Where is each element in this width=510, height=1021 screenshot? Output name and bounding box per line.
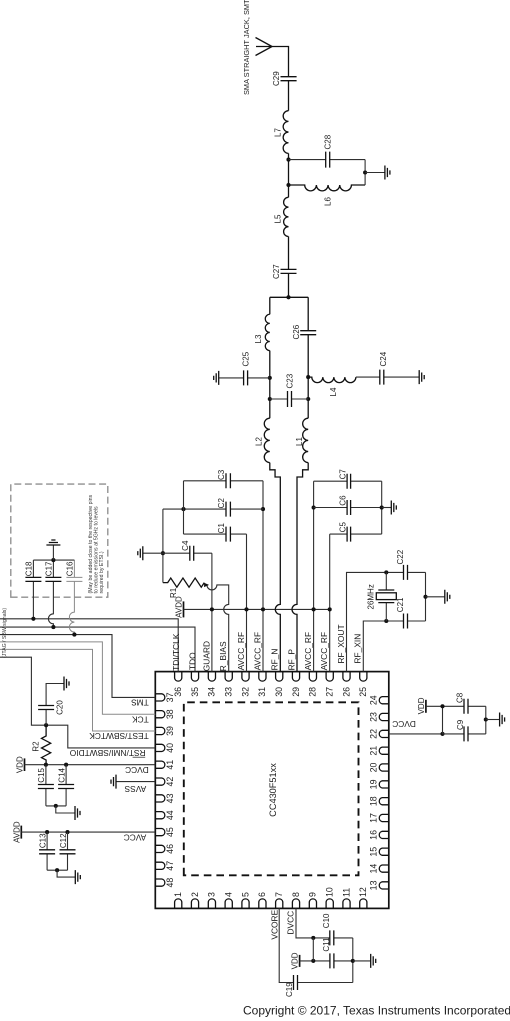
wire RF_XOUT net (pin 26) — [347, 572, 426, 671]
svg-text:33: 33 — [224, 687, 234, 697]
svg-text:26: 26 — [341, 687, 351, 697]
junction C4 node — [161, 551, 165, 555]
svg-text:TDI/TCLK: TDI/TCLK — [171, 633, 181, 671]
svg-text:C22: C22 — [396, 549, 405, 564]
svg-text:L2: L2 — [255, 437, 264, 446]
svg-text:VDD: VDD — [291, 952, 300, 969]
wire RF_XIN net (pin 25) — [363, 621, 425, 672]
svg-text:34: 34 — [207, 687, 217, 697]
inductor L2 — [264, 418, 270, 462]
svg-text:DVCC: DVCC — [285, 911, 295, 935]
svg-text:24: 24 — [369, 695, 379, 705]
inductor L3 — [265, 314, 270, 350]
ground AVSS pin 42 — [116, 781, 155, 783]
wire RF_N net (pin 30, hops rail, jog up to balun) — [270, 463, 281, 672]
svg-text:44: 44 — [165, 810, 175, 820]
junction C2/top bar — [181, 507, 185, 511]
inductor L4 — [308, 377, 356, 383]
capacitor C16 on TMS line (hops TDO and TDI) — [69, 560, 74, 635]
wire TDO net (pin 35 to top edge) — [0, 627, 195, 672]
svg-text:C18: C18 — [24, 561, 33, 576]
junction pin31/C2 — [261, 507, 265, 511]
capacitor C12 — [67, 832, 69, 870]
inductor L7 — [283, 111, 288, 154]
capacitor C17 on TDO line (hops TDI) — [48, 560, 53, 627]
svg-text:13: 13 — [369, 880, 379, 890]
junction C23 bottom — [306, 397, 310, 401]
pin stubs bottom edge: pins 13..24 — [379, 697, 389, 889]
junction VDD/link — [440, 704, 444, 708]
svg-text:C10: C10 — [322, 913, 331, 928]
junction bottom bar/ground — [351, 959, 355, 963]
capacitor C15 — [45, 765, 47, 806]
wire main RF rail — [288, 237, 290, 298]
capacitor C25 — [219, 377, 270, 379]
svg-text:3: 3 — [207, 892, 217, 897]
svg-text:17: 17 — [369, 813, 379, 823]
capacitor C23 — [270, 398, 308, 400]
wire C21/C22 bottom bar — [425, 572, 427, 621]
capacitor C14 — [65, 765, 67, 806]
svg-text:19: 19 — [369, 779, 379, 789]
svg-text:8: 8 — [291, 892, 301, 897]
svg-text:18: 18 — [369, 796, 379, 806]
capacitor C21 — [404, 614, 408, 629]
svg-text:C17: C17 — [44, 561, 53, 576]
wire VDD to C11 — [300, 960, 353, 962]
wire RF_P rail to C26 — [307, 297, 309, 418]
svg-text:R1: R1 — [169, 587, 178, 598]
junction bottom bar ground — [363, 170, 367, 174]
svg-text:27: 27 — [325, 687, 335, 697]
svg-text:C1: C1 — [217, 523, 226, 534]
capacitor C13 — [46, 832, 48, 870]
svg-text:32: 32 — [240, 687, 250, 697]
capacitor C3 — [184, 480, 264, 482]
junction pin32/rail — [244, 607, 248, 611]
junction C12-C13 ground tap — [55, 868, 59, 872]
junction pin28/rail — [312, 607, 316, 611]
junction L4 — [306, 375, 310, 379]
wire AVCC_RF pin 31 net — [262, 481, 264, 672]
junction pin27/rail — [328, 607, 332, 611]
svg-text:AVCC_RF: AVCC_RF — [303, 632, 313, 670]
svg-text:GUARD: GUARD — [201, 641, 211, 671]
svg-text:L6: L6 — [323, 197, 332, 206]
svg-text:7: 7 — [274, 892, 284, 897]
wire TMS net (pin 37 to top edge) — [0, 635, 155, 698]
inductor L1 — [303, 418, 309, 462]
svg-text:42: 42 — [165, 777, 175, 787]
pin stubs right edge: pins 36..25 — [175, 672, 367, 682]
ground for C5-C7 — [382, 507, 392, 509]
svg-text:11: 11 — [341, 888, 351, 897]
junction bar/C27 — [286, 295, 290, 299]
junction VDD/C14 — [64, 763, 68, 767]
capacitor C22 — [404, 565, 408, 580]
junction C25 — [268, 376, 272, 380]
dashed option box around C16 C17 C18 — [11, 484, 108, 597]
arrow R1 to R_BIAS — [204, 583, 209, 587]
junction C16/TMS — [72, 633, 76, 637]
wire DVCC net (pin 8) — [296, 908, 353, 938]
wire AVDD RF rail vertical — [184, 608, 330, 610]
svg-text:41: 41 — [165, 760, 175, 770]
wire AVCC_RF pin 27 net — [329, 534, 331, 672]
svg-text:DVCC: DVCC — [125, 765, 149, 775]
junction VDD/DVCC link — [311, 959, 315, 963]
ground for C20 — [64, 677, 69, 691]
capacitor C8 — [464, 699, 468, 714]
svg-text:RF_N: RF_N — [270, 649, 280, 671]
label RST/NMI/SBWTDIO — [69, 748, 145, 758]
svg-text:4: 4 — [224, 892, 234, 897]
svg-text:TCK: TCK — [132, 714, 149, 724]
wire RST/NMI/SBWTDIO net (pin 40 to top edge) — [0, 657, 155, 748]
wire GUARD net (pin 34) — [211, 553, 213, 671]
capacitor C7 — [314, 480, 382, 482]
capacitor C18 on TDI line — [32, 560, 34, 619]
svg-text:C23: C23 — [285, 373, 294, 388]
capacitor C11 — [330, 953, 334, 968]
supply AVDD bar (RF rail) — [183, 601, 185, 617]
svg-text:SMA STRAIGHT JACK, SMT: SMA STRAIGHT JACK, SMT — [242, 0, 251, 95]
svg-text:C14: C14 — [57, 767, 66, 782]
capacitor C29 — [281, 77, 297, 81]
wire C5-C6-C7 bottom bar — [381, 481, 383, 534]
junction C17/TDO — [51, 625, 55, 629]
svg-text:C12: C12 — [59, 833, 68, 848]
svg-text:35: 35 — [190, 687, 200, 697]
ground for C8/C9 — [486, 719, 500, 721]
svg-text:TDO: TDO — [188, 652, 198, 670]
capacitor C9 — [443, 733, 486, 735]
junction C23 top — [268, 397, 272, 401]
resistor R1 — [163, 578, 204, 587]
resistor R2 — [42, 726, 51, 765]
svg-text:40: 40 — [165, 743, 175, 753]
svg-text:C3: C3 — [217, 469, 226, 480]
svg-text:15: 15 — [369, 847, 379, 857]
svg-text:C29: C29 — [272, 71, 281, 86]
svg-text:L4: L4 — [329, 387, 338, 396]
svg-text:C25: C25 — [241, 351, 250, 366]
junction crystal/XIN — [384, 619, 388, 623]
svg-text:RF_XOUT: RF_XOUT — [336, 624, 346, 663]
svg-text:C2: C2 — [217, 498, 226, 509]
svg-text:C21: C21 — [396, 597, 405, 612]
supply VDD bar (pin 7/8 area) — [299, 955, 301, 967]
capacitor C2 — [163, 508, 263, 510]
svg-text:23: 23 — [369, 712, 379, 722]
svg-text:R_BIAS: R_BIAS — [218, 641, 228, 671]
wire RF_N rail to top bar — [269, 351, 271, 419]
wire AVCC_RF pin 32 net — [246, 534, 248, 672]
svg-text:28: 28 — [308, 687, 318, 697]
pin numbers 1..12 — [173, 887, 368, 897]
junction DVCC/VDD link — [311, 936, 315, 940]
svg-text:25: 25 — [358, 687, 368, 697]
svg-text:C20: C20 — [55, 700, 64, 715]
pin numbers 37..48 — [165, 692, 175, 887]
svg-text:14: 14 — [369, 864, 379, 874]
wire C19/C10/C11 bottom bar — [352, 938, 354, 983]
svg-text:CC430F51xx: CC430F51xx — [268, 763, 278, 817]
capacitor C26 — [300, 331, 316, 335]
svg-text:C19: C19 — [285, 982, 294, 997]
svg-text:47: 47 — [165, 861, 175, 871]
svg-text:26MHz: 26MHz — [366, 584, 375, 609]
svg-text:C8: C8 — [455, 692, 464, 703]
svg-text:TEST/SBWTCK: TEST/SBWTCK — [89, 731, 149, 741]
svg-text:L7: L7 — [273, 128, 282, 137]
wire R1 top to C4 node and C2 branch — [162, 509, 164, 582]
junction C8-C9 ground — [484, 717, 488, 721]
svg-text:21: 21 — [369, 746, 379, 756]
svg-text:9: 9 — [308, 892, 318, 897]
supply VDD bar (pin22 area) — [425, 700, 427, 713]
inductor L6 — [289, 185, 366, 191]
capacitor C20 — [46, 684, 64, 726]
svg-text:5: 5 — [240, 892, 250, 897]
svg-text:43: 43 — [165, 793, 175, 803]
svg-text:DVCC: DVCC — [392, 719, 416, 729]
capacitor C1 — [184, 533, 247, 535]
wire C28/L6 bottom bar — [364, 160, 366, 185]
junction C14-C15 ground tap — [54, 804, 58, 808]
junction pin31/rail — [261, 607, 265, 611]
junction AVDD/C13 — [45, 830, 49, 834]
wire VDD to pin 41 DVCC — [25, 764, 156, 766]
ground for crystal caps — [426, 596, 445, 598]
svg-text:22: 22 — [369, 729, 379, 739]
capacitor C19 — [294, 975, 298, 990]
svg-text:C4: C4 — [181, 540, 190, 551]
svg-text:39: 39 — [165, 726, 175, 736]
junction crystal/XOUT — [384, 570, 388, 574]
svg-text:48: 48 — [165, 878, 175, 888]
svg-text:C5: C5 — [338, 522, 347, 533]
capacitor C24 — [356, 376, 419, 378]
junction C28 branch — [286, 158, 290, 162]
wire R_BIAS net (pin 33, hops rail) — [207, 585, 229, 672]
svg-text:L5: L5 — [273, 214, 282, 223]
supply VDD bar (pin 41 DVCC rail) — [24, 758, 26, 771]
wire balun output bar — [270, 296, 308, 298]
wire C29 to antenna — [272, 47, 289, 77]
wire TDI/TCLK net (pin 36 to top edge) — [0, 619, 178, 672]
svg-text:L3: L3 — [254, 334, 263, 343]
svg-text:10: 10 — [325, 887, 335, 897]
junction R2/RST — [44, 723, 48, 727]
crystal Y1 26MHz — [385, 572, 387, 621]
wire C14/C15 common — [46, 805, 66, 807]
wire cap common bar — [33, 559, 74, 561]
ground for C25 (pointing up) — [214, 371, 219, 385]
svg-text:AVDD: AVDD — [12, 821, 21, 843]
svg-text:45: 45 — [165, 827, 175, 837]
svg-text:AVCC_RF: AVCC_RF — [252, 632, 262, 670]
wire C8/C9 bottom bar — [485, 706, 487, 734]
svg-text:RST/NMI/SBWTDIO: RST/NMI/SBWTDIO — [69, 748, 145, 758]
svg-text:37: 37 — [165, 692, 175, 702]
svg-text:R2: R2 — [32, 741, 41, 752]
capacitor C28 — [289, 159, 366, 161]
svg-text:AVCC_RF: AVCC_RF — [236, 632, 246, 670]
pin stubs top edge: pins 37..48 — [155, 694, 165, 886]
svg-text:46: 46 — [165, 844, 175, 854]
IC U1 inner dashed boundary — [184, 702, 359, 875]
inductor L5 — [284, 197, 289, 236]
svg-text:VDD: VDD — [16, 756, 25, 773]
junction pin22/C9 — [440, 732, 444, 736]
ground for C4 (pointing up) — [143, 552, 163, 554]
ground for C24 — [419, 370, 424, 384]
svg-text:AVCC_RF: AVCC_RF — [319, 632, 329, 670]
wire L3 to top bar — [269, 297, 271, 314]
svg-text:VDD: VDD — [417, 697, 426, 714]
svg-text:16: 16 — [369, 830, 379, 840]
svg-text:31: 31 — [257, 687, 267, 697]
svg-text:C26: C26 — [292, 324, 301, 339]
junction GUARD/rail — [210, 607, 214, 611]
wire VCORE net (pin 7) — [279, 908, 353, 982]
svg-text:29: 29 — [291, 687, 301, 697]
capacitor C5 — [330, 533, 382, 535]
wire VDD to C8 — [426, 705, 486, 707]
wire C1-C2-C3 top bar — [183, 481, 185, 534]
svg-text:AVCC: AVCC — [124, 832, 147, 842]
svg-text:AVDD: AVDD — [174, 596, 183, 618]
pin numbers 36..25 — [173, 687, 368, 697]
wire RF_P net (pin 29, hops rail, jog down to balun) — [292, 463, 308, 672]
svg-text:38: 38 — [165, 709, 175, 719]
junction AVDD/C12 — [65, 830, 69, 834]
svg-text:AVSS: AVSS — [124, 784, 146, 794]
wire AVCC_RF pin 28 net — [313, 481, 315, 671]
junction pin28/C6 — [312, 505, 316, 509]
supply AVDD bar (pin 45 AVCC) — [20, 826, 22, 839]
wire L5 to L7 — [288, 153, 290, 197]
svg-text:Copyright © 2017, Texas Instru: Copyright © 2017, Texas Instruments Inco… — [243, 1004, 510, 1018]
svg-text:1: 1 — [173, 892, 183, 897]
ground for C12/C13 — [57, 870, 75, 877]
capacitor C4 — [163, 552, 212, 554]
wire VDD-DVCC link — [312, 938, 314, 961]
capacitor C10 — [330, 930, 334, 945]
junction C18/TDI — [31, 617, 35, 621]
svg-text:C28: C28 — [323, 134, 332, 149]
pin stubs left edge: pins 1..12 — [175, 899, 367, 909]
ground for C14/C15 — [56, 806, 75, 813]
wire TCK net (pin 38 to top edge) — [0, 642, 155, 714]
capacitor C6 — [314, 507, 382, 509]
pin numbers 13..24 — [369, 695, 379, 890]
junction C6/ground — [380, 505, 384, 509]
svg-text:30: 30 — [274, 687, 284, 697]
capacitor C27 — [281, 269, 297, 273]
wire pin22 to VDD link — [442, 706, 444, 734]
svg-text:C11: C11 — [322, 937, 331, 952]
svg-text:VCORE: VCORE — [269, 909, 279, 939]
junction VDD/C15 — [44, 763, 48, 767]
ground for C28/L6 — [365, 172, 385, 174]
wire C12/C13 common — [47, 869, 67, 871]
IC U1 CC430F51xx outline — [155, 672, 388, 909]
svg-text:C24: C24 — [379, 351, 388, 366]
wire L7 to C29 — [288, 81, 290, 111]
svg-text:required by ETSI.): required by ETSI.) — [99, 551, 105, 593]
svg-text:C7: C7 — [338, 469, 347, 480]
junction crystal ground — [423, 595, 427, 599]
svg-text:(JTAG / SBW signals): (JTAG / SBW signals) — [2, 608, 8, 658]
svg-text:RF_XIN: RF_XIN — [353, 634, 363, 664]
ground for C16-C18 (pointing right) — [52, 545, 54, 560]
svg-text:6: 6 — [257, 892, 267, 897]
antenna SMA jack symbol — [256, 38, 273, 56]
svg-text:C27: C27 — [272, 264, 281, 279]
svg-text:C13: C13 — [38, 833, 47, 848]
svg-text:C15: C15 — [37, 767, 46, 782]
svg-text:12: 12 — [358, 887, 368, 897]
junction bar/ground — [51, 558, 55, 562]
svg-text:C6: C6 — [338, 495, 347, 506]
svg-text:C9: C9 — [456, 719, 465, 730]
junction L6 branch — [286, 183, 290, 187]
ground for C10/C11/C19 — [353, 960, 371, 962]
svg-text:C16: C16 — [65, 561, 74, 576]
wire AVDD to pin 45 AVCC — [21, 831, 155, 833]
svg-text:2: 2 — [190, 892, 200, 897]
svg-text:L1: L1 — [295, 437, 304, 446]
wire DVCC net (pin 22) — [389, 733, 443, 735]
svg-text:20: 20 — [369, 763, 379, 773]
wire TEST/SBWTCK net (pin 39 to top edge) — [0, 649, 155, 731]
svg-text:RF_P: RF_P — [286, 649, 296, 671]
svg-text:TMS: TMS — [131, 698, 149, 708]
